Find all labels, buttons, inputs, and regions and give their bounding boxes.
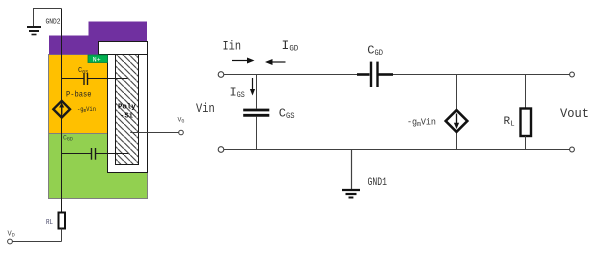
svg-text:Iin: Iin: [223, 39, 242, 54]
svg-text:Vin: Vin: [196, 101, 215, 116]
svg-text:Vout: Vout: [560, 106, 589, 121]
svg-text:GND1: GND1: [368, 177, 388, 189]
svg-text:N+: N+: [93, 56, 101, 63]
svg-text:CGD: CGD: [63, 135, 73, 143]
svg-text:-gmVin: -gmVin: [407, 117, 436, 130]
svg-text:Poly: Poly: [118, 104, 136, 112]
svg-text:-gmVin: -gmVin: [77, 106, 96, 114]
svg-text:VG: VG: [178, 117, 185, 125]
svg-text:RL: RL: [46, 219, 53, 227]
svg-text:VD: VD: [8, 231, 15, 239]
svg-text:P-base: P-base: [66, 91, 92, 100]
svg-text:GND2: GND2: [46, 19, 61, 27]
svg-text:-Si: -Si: [120, 113, 133, 121]
